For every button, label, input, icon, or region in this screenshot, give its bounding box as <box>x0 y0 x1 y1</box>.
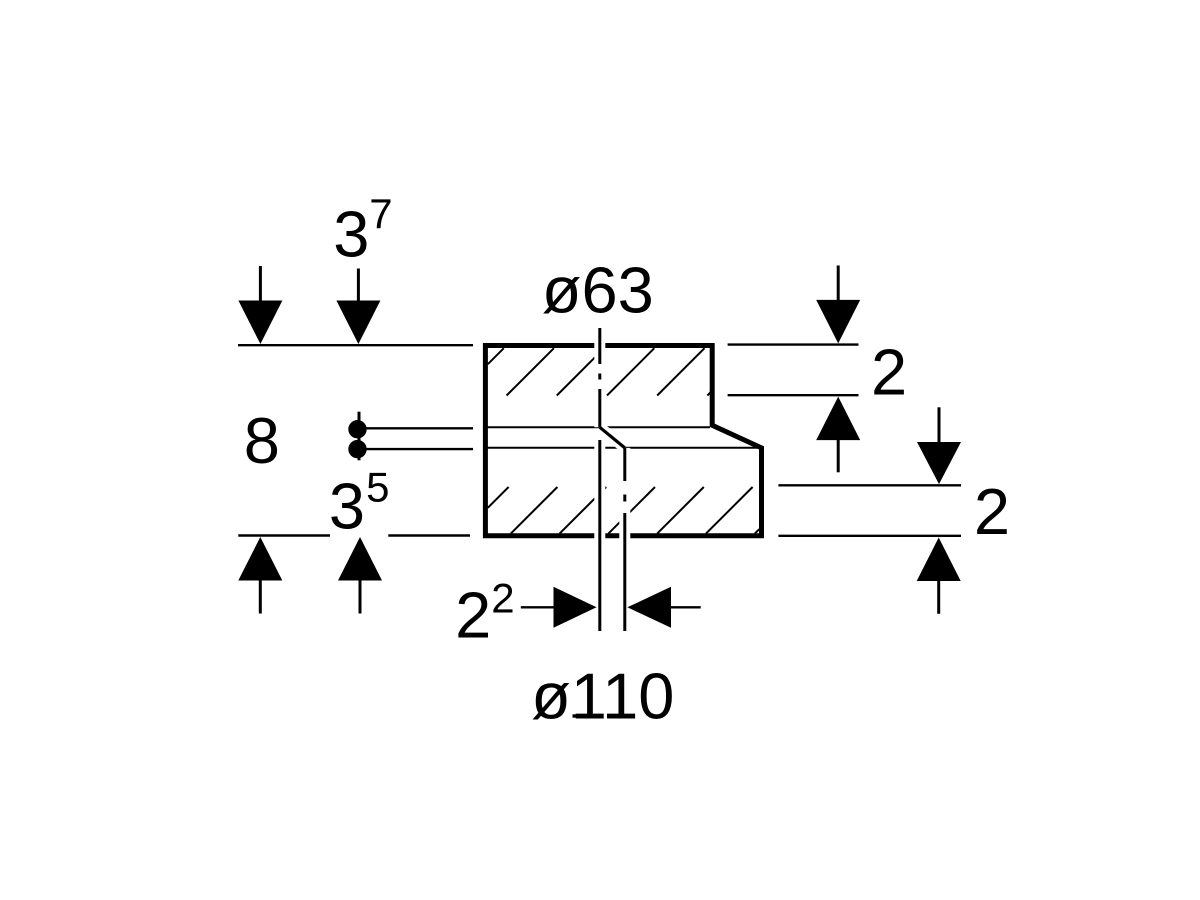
inner ledge line lower (socket shoulder) <box>487 447 758 449</box>
svg-text:5: 5 <box>366 464 389 511</box>
svg-text:ø63: ø63 <box>542 253 654 326</box>
svg-text:3: 3 <box>329 469 365 542</box>
body outline (reducer cross-section) <box>485 346 761 536</box>
centreline jog (offset section) <box>600 427 625 448</box>
dim 2 upper right arrow up <box>816 397 860 473</box>
dim 8 tick <box>358 412 361 461</box>
dim 2-2 arrow left-pointing <box>627 587 671 628</box>
inner ledge line upper (socket shoulder) <box>487 426 710 428</box>
dim 3-7 arrow right (down) <box>336 269 380 345</box>
dim 8 leader lower <box>360 448 473 450</box>
dim 2 upper right line bottom <box>728 394 859 396</box>
dim 2 upper right arrow down <box>816 266 860 344</box>
dim 3-5 line right segment <box>388 534 470 536</box>
dim 2 lower right arrow up <box>917 538 961 614</box>
dim 2-2 arrow right-pointing <box>554 587 597 628</box>
extension line wall inner (left of centreline) <box>598 440 601 631</box>
dim 8 dot upper <box>348 420 366 438</box>
svg-text:7: 7 <box>369 190 392 237</box>
hatching upper wall band <box>488 348 711 395</box>
svg-text:2: 2 <box>455 579 491 652</box>
svg-text:3: 3 <box>333 198 369 271</box>
dim 3-7 line (top left, at top face level) <box>238 344 473 346</box>
dim 2 lower right arrow down <box>917 407 961 484</box>
centreline o63 (dash-dot, upper) <box>598 328 601 427</box>
svg-text:2: 2 <box>974 475 1010 548</box>
dim 2-2 left leader <box>521 606 555 608</box>
dim 8 leader upper <box>360 427 473 429</box>
centreline lower (dash-dot) <box>623 448 626 631</box>
svg-text:2: 2 <box>491 574 514 621</box>
dim 3-5 arrow left (up) <box>238 537 282 614</box>
dim 8 dot lower <box>348 440 366 458</box>
serif foot of first 1 <box>573 714 594 717</box>
svg-text:ø110: ø110 <box>531 659 674 732</box>
hatching lower wall band <box>488 487 759 534</box>
dim 2 lower right line bottom <box>778 535 961 537</box>
serif foot of second 1 <box>607 714 628 717</box>
dim 2 lower right line top <box>778 484 961 486</box>
dim 3-5 line left segment <box>238 534 330 536</box>
svg-text:8: 8 <box>244 404 280 477</box>
dim 3-7 arrow left (down) <box>238 266 282 344</box>
dim 3-5 arrow right (up) <box>338 537 382 614</box>
dim 2-2 right leader <box>671 606 701 608</box>
white halo casings for centrelines <box>600 328 625 631</box>
svg-text:2: 2 <box>871 336 907 409</box>
dim 2 upper right line top <box>728 343 859 345</box>
